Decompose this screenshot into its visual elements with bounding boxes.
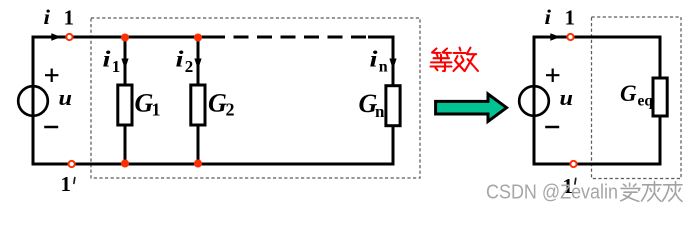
watermark hand-drawn char 爱 (621, 183, 640, 201)
svg-text:n: n (379, 59, 388, 76)
equivalence arrow (green block arrow) (436, 94, 507, 121)
junction dot: G2 bottom (194, 159, 202, 167)
minus sign of source u (right) (545, 126, 559, 129)
dashed box enclosing Geq (592, 17, 682, 179)
terminal node 1' (left circuit, open circle) (68, 161, 74, 167)
conductance G2 (191, 85, 205, 125)
svg-text:1: 1 (64, 5, 75, 29)
wire: right circuit bottom horizontal (533, 163, 662, 166)
svg-text:i: i (176, 47, 185, 72)
current arrow i1 (121, 59, 128, 70)
wire: top horizontal to Gn corner (368, 36, 394, 39)
svg-text:CSDN @Zevalin: CSDN @Zevalin (486, 182, 618, 204)
junction dot: G1 top (121, 33, 129, 41)
plus sign of source u (right) (546, 69, 559, 83)
svg-text:G: G (620, 81, 637, 106)
current arrow i (right circuit) (550, 33, 560, 41)
wire: G1 branch vertical (124, 37, 127, 164)
wire: top horizontal dashed continuation (... more branches) (210, 36, 371, 39)
svg-text:u: u (59, 85, 73, 110)
junction dot: G2 top (194, 33, 202, 41)
wire: bottom horizontal (left circuit) (32, 163, 395, 166)
svg-text:u: u (560, 85, 574, 110)
terminal node 1' (right circuit, open circle) (570, 161, 576, 167)
terminal node 1 (left circuit, open circle) (66, 34, 72, 40)
current arrow i2 (194, 59, 201, 70)
wire: Geq branch vertical (659, 36, 662, 166)
wire: right circuit top horizontal (533, 36, 662, 39)
wire: Gn right branch vertical (392, 36, 395, 166)
svg-text:1: 1 (61, 172, 72, 196)
svg-text:1: 1 (112, 57, 121, 76)
svg-text:1: 1 (565, 5, 576, 29)
label 等效 (equivalent) hand-drawn: char 效 (454, 48, 479, 71)
voltage source u (right circuit) (519, 86, 549, 116)
watermark hand-drawn char 灰 (first) (642, 182, 662, 202)
svg-text:G: G (208, 89, 227, 118)
wire: top horizontal (left circuit, solid part) (32, 36, 210, 39)
svg-text:i: i (370, 47, 379, 72)
conductance Geq (653, 78, 667, 116)
wire: left vertical branch of left circuit (32, 36, 35, 166)
svg-text:i: i (545, 5, 552, 29)
minus sign of source u (left) (44, 126, 58, 129)
junction dot: G1 bottom (121, 159, 129, 167)
svg-text:n: n (375, 102, 385, 121)
plus sign of source u (left) (45, 69, 58, 83)
wire: G2 branch vertical (197, 37, 200, 164)
current arrow i (left circuit) (51, 33, 61, 41)
terminal node 1 (right circuit, open circle) (567, 34, 573, 40)
svg-text:i: i (44, 5, 51, 29)
svg-text:2: 2 (185, 57, 194, 76)
watermark hand-drawn char 灰 (second) (663, 182, 683, 202)
voltage source u (left circuit) (18, 86, 48, 116)
svg-text:i: i (103, 47, 112, 72)
conductance G1 (118, 85, 132, 125)
label 等效 (equivalent) hand-drawn: char 等 (431, 49, 452, 72)
svg-text:eq: eq (638, 93, 654, 110)
wire: right circuit left vertical (533, 36, 536, 166)
svg-text:2: 2 (226, 100, 235, 120)
conductance Gn (386, 86, 400, 126)
dashed box enclosing left parallel network (91, 18, 420, 178)
svg-text:1: 1 (152, 100, 161, 120)
current arrow in (389, 59, 396, 70)
